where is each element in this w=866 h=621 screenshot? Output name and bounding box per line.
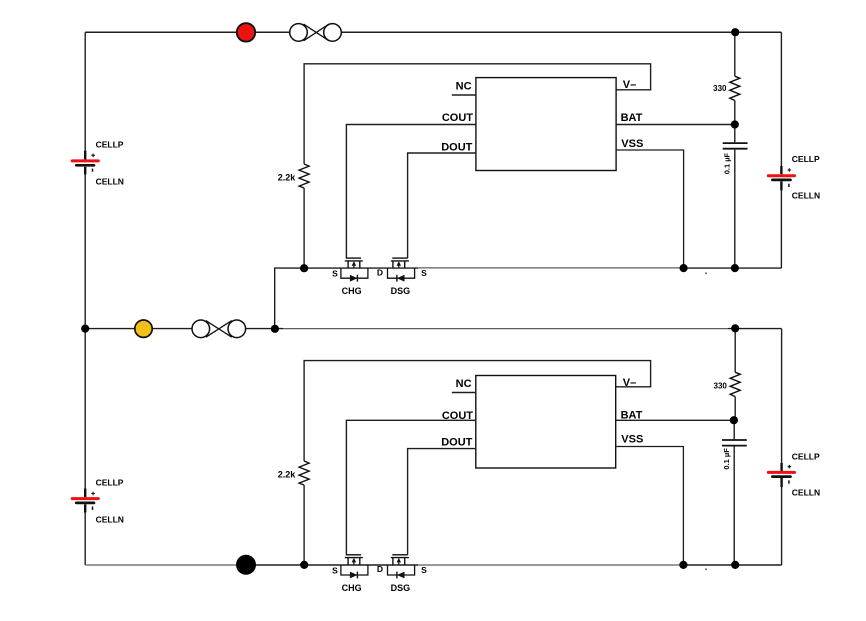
pin DOUT (U1) + wire to DSG gate (408, 142, 476, 258)
wire bottom rail main segment (254, 564, 418, 566)
svg-text:S: S (332, 269, 338, 279)
svg-text:S: S (421, 565, 427, 575)
battery B4 CELLP/CELLN (bottom right) (768, 451, 820, 497)
svg-text:D: D (377, 564, 383, 574)
svg-text:DSG: DSG (391, 286, 411, 296)
battery B2 CELLP/CELLN (bottom left) (72, 478, 124, 525)
wire FET source-drain rail (top) with corner down to mid rail (275, 268, 418, 329)
node junction VSS / FET rail (top) (680, 264, 688, 272)
wire right rail upper (top battery branch) (780, 32, 782, 166)
capacitor C1 0.1uF (top) (723, 125, 748, 269)
wire left rail upper (above top battery) (84, 32, 86, 159)
node junction 2.2k / FET rail (top) (300, 264, 308, 272)
transistor Q2 DSG (top) (388, 258, 415, 282)
svg-text:CELLP: CELLP (96, 478, 124, 488)
wire top rail left segment (PACK+ rail) (85, 31, 302, 33)
svg-text:CELLN: CELLN (96, 177, 124, 187)
transistor Q4 DSG (bottom) (388, 555, 415, 579)
svg-text:S: S (421, 268, 427, 278)
fuse F1 (top breaker symbol) (290, 24, 342, 42)
op-amp U2 protection IC body (bottom) (476, 376, 616, 469)
node mid-terminal yellow circle (135, 320, 152, 337)
svg-text:CHG: CHG (342, 286, 362, 296)
node junction mid rail / R4 (731, 324, 739, 332)
transistor Q3 CHG (bottom) (341, 555, 368, 579)
resistor R3 2.2k (bottom) with wire to V- loop (278, 361, 651, 565)
svg-text:BAT: BAT (621, 112, 643, 124)
wire bottom rail right segment (683, 564, 781, 566)
svg-text:NC: NC (456, 378, 472, 390)
svg-text:S: S (332, 566, 338, 576)
node junction C2 / bottom rail (731, 561, 739, 569)
node PACK+ red terminal (237, 23, 255, 41)
wire middle rail right end segment (728, 328, 782, 330)
svg-text:VSS: VSS (621, 138, 643, 150)
node junction VSS2 / bottom rail (679, 561, 687, 569)
svg-text:V–: V– (623, 377, 636, 389)
svg-text:DSG: DSG (391, 583, 411, 593)
battery B1 CELLP/CELLN (top left) (72, 140, 124, 187)
svg-text:D: D (377, 267, 383, 277)
resistor R4 330 (bottom) (714, 329, 741, 421)
wire right rail lower (top circuit) (780, 190, 782, 268)
pin VSS (U2) + wire down to rail (616, 433, 684, 565)
node junction 2.2k / bottom rail (300, 561, 308, 569)
svg-text:V–: V– (623, 79, 636, 91)
svg-text:0.1 µF: 0.1 µF (722, 448, 731, 470)
svg-text:COUT: COUT (442, 112, 473, 124)
pin COUT (U1) + wire to CHG gate (346, 112, 476, 258)
pin VSS (U1) + wire down to rail (616, 138, 684, 268)
node junction left rail / mid rail (81, 325, 89, 333)
pin NC (U2) (452, 378, 476, 393)
fuse F2 (middle breaker symbol) (192, 320, 246, 338)
pin BAT (U2) + wire (616, 410, 734, 422)
wire bottom rail left grey segment (85, 564, 238, 566)
resistor R2 330 (top) (713, 32, 740, 124)
wire left rail middle (between batteries) (84, 167, 86, 497)
node junction BAT / R2 / C1 (731, 120, 739, 128)
node stray dot (bottom) (705, 568, 707, 570)
transistor Q1 CHG (top) (341, 258, 368, 282)
svg-text:CELLP: CELLP (792, 451, 820, 461)
op-amp U1 protection IC body (top) (476, 78, 616, 171)
svg-text:2.2k: 2.2k (278, 172, 297, 182)
pin NC (U1) (452, 80, 476, 95)
wire top rail right segment (329, 31, 781, 33)
wire bottom rail grey segment right of DSG (418, 564, 683, 566)
svg-text:CHG: CHG (342, 583, 362, 593)
node junction C1 / FET rail (top) (731, 264, 739, 272)
node junction mid rail / top circuit return (271, 325, 279, 333)
svg-text:CELLN: CELLN (792, 191, 820, 201)
pin BAT (U1) + wire (616, 112, 735, 125)
svg-text:DOUT: DOUT (441, 437, 472, 449)
node stray dot (top) (705, 272, 707, 274)
wire left rail lower (below bottom battery) (84, 504, 86, 565)
node junction top rail / R2 (731, 28, 739, 36)
wire right rail lower (bottom circuit) (781, 487, 783, 565)
svg-text:CELLN: CELLN (792, 487, 820, 497)
node PACK- black terminal (236, 555, 256, 575)
wire middle rail right segment (233, 328, 283, 330)
svg-text:0.1 µF: 0.1 µF (723, 152, 732, 174)
wire right rail upper (bottom circuit battery branch) (781, 329, 783, 463)
wire FET rail right segment (top) (684, 267, 782, 269)
resistor R1 2.2k (top) with wire to V- loop (278, 64, 651, 268)
capacitor C2 0.1uF (bottom) (722, 420, 747, 565)
wire middle rail long grey segment (283, 328, 728, 330)
svg-text:2.2k: 2.2k (278, 469, 297, 479)
wire middle rail left segment (85, 328, 205, 330)
svg-text:CELLP: CELLP (792, 154, 820, 164)
svg-text:CELLN: CELLN (96, 515, 124, 525)
battery B3 CELLP/CELLN (top right) (768, 154, 820, 201)
svg-text:330: 330 (713, 84, 727, 93)
svg-text:DOUT: DOUT (441, 142, 472, 154)
svg-text:NC: NC (456, 80, 472, 92)
svg-text:VSS: VSS (621, 433, 643, 445)
pin COUT (U2) + wire to CHG gate (346, 410, 475, 555)
svg-text:330: 330 (714, 381, 728, 390)
wire FET rail grey segment right of DSG (top) (418, 267, 684, 269)
svg-text:CELLP: CELLP (96, 140, 124, 150)
pin DOUT (U2) + wire to DSG gate (408, 437, 476, 555)
node junction BAT2 / R4 / C2 (730, 416, 738, 424)
